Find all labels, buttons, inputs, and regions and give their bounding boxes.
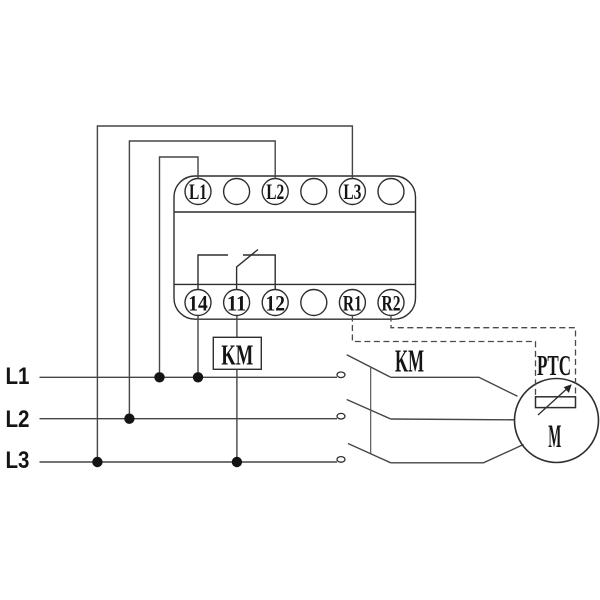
junction rail L3 / coil KM [232,457,242,467]
internal changeover contact 11-12-14 [198,250,275,290]
contactor KM pole 1 blade [347,355,391,378]
sensor wire R2 (dashed) [391,316,576,397]
svg-text:14: 14 [188,291,208,316]
svg-text:R2: R2 [382,291,401,316]
svg-text:L2: L2 [6,406,30,433]
sensor wire R1 (dashed) [352,316,535,397]
wire L3-terminal loop (outer) [97,126,352,462]
contactor KM pole 2 blade [347,400,391,420]
wire L2-terminal loop (middle) [129,141,275,419]
wire pole 3 to motor [391,445,524,463]
relay body [174,176,416,319]
terminal L3 [339,179,365,205]
wire coil KM to rail L3 [236,369,238,462]
power rail L3 [40,461,338,463]
svg-text:11: 11 [227,291,247,316]
svg-text:M: M [548,419,561,455]
contactor KM pole 3 blade [348,444,391,463]
power rail L2 [40,418,338,420]
contactor KM pole 3 fixed contact [337,457,345,463]
contactor KM pole 2 fixed contact [337,413,345,419]
wire terminal 11 to coil KM [236,316,238,338]
terminal L2 [262,179,288,205]
terminal (blank top 6) [378,179,404,205]
wire terminal 14 to rail L1 [197,316,199,378]
wire pole 2 to motor [391,418,515,421]
junction rail L3 / outer loop [92,457,102,467]
svg-text:L1: L1 [6,363,30,390]
svg-text:12: 12 [265,291,285,316]
terminal (blank bottom 4) [301,290,327,316]
motor M [515,379,599,463]
junction rail L2 / middle loop [124,414,134,424]
coil KM [213,337,261,369]
wire L1-terminal loop (inner) [160,157,199,377]
terminal (blank top 2) [224,179,250,205]
terminal L1 [185,179,211,205]
terminal (blank top 4) [301,179,327,205]
contactor KM pole 1 fixed contact [337,372,345,378]
svg-text:PTC: PTC [537,350,571,382]
svg-text:KM: KM [395,343,424,379]
terminal R1 [339,290,365,316]
terminal R2 [378,290,404,316]
junction rail L1 / inner loop [154,372,164,382]
terminal 14 [185,290,211,316]
contactor KM linkage [370,367,372,454]
svg-text:L3: L3 [343,179,361,204]
thermistor PTC element [536,384,576,415]
junction rail L1 / terminal 14 [193,372,203,382]
svg-text:KM: KM [221,340,253,372]
power rail L1 [40,376,338,378]
terminal 11 [224,290,250,316]
terminal 12 [262,290,288,316]
wire pole 1 to motor [391,377,518,396]
svg-text:L1: L1 [189,179,207,204]
svg-text:L2: L2 [266,179,284,204]
svg-text:L3: L3 [6,447,30,474]
svg-text:R1: R1 [343,291,362,316]
